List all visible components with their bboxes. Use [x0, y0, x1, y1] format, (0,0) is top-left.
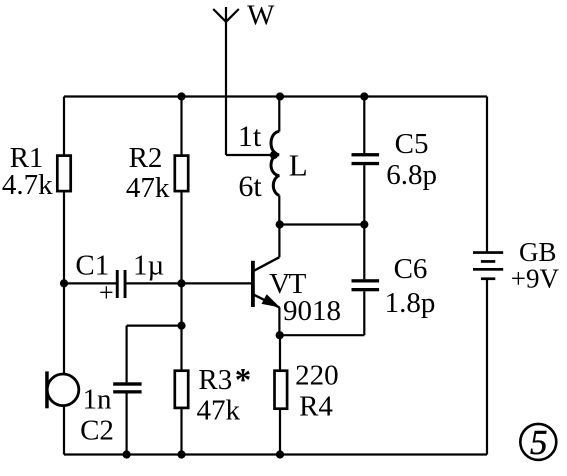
svg-text:5: 5	[530, 423, 548, 462]
svg-text:R3: R3	[198, 364, 232, 396]
svg-text:C6: C6	[394, 253, 428, 285]
svg-text:1t: 1t	[238, 120, 262, 153]
svg-text:1.8p: 1.8p	[385, 287, 436, 319]
svg-text:6.8p: 6.8p	[386, 159, 437, 191]
svg-text:47k: 47k	[126, 172, 170, 204]
svg-text:220: 220	[295, 359, 339, 391]
svg-text:+: +	[99, 278, 114, 307]
svg-text:9018: 9018	[283, 295, 341, 327]
svg-text:1n: 1n	[83, 384, 113, 416]
svg-text:L: L	[289, 148, 308, 183]
svg-text:6t: 6t	[238, 170, 262, 203]
svg-text:C1: C1	[75, 249, 109, 281]
svg-text:R4: R4	[299, 390, 333, 422]
svg-text:1µ: 1µ	[133, 249, 164, 281]
svg-text:47k: 47k	[196, 394, 240, 426]
svg-text:4.7k: 4.7k	[2, 169, 53, 201]
svg-text:C2: C2	[80, 414, 114, 446]
svg-text:*: *	[235, 363, 252, 399]
svg-text:C5: C5	[395, 128, 429, 160]
svg-text:+9V: +9V	[511, 263, 560, 293]
svg-text:W: W	[247, 0, 275, 31]
svg-text:R2: R2	[129, 142, 163, 174]
